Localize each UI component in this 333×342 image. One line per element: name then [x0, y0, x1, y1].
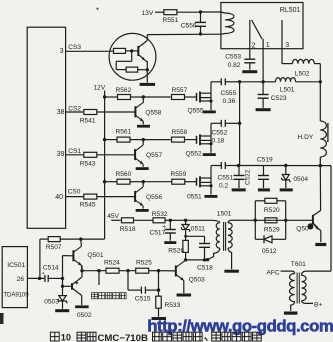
junction C556 bottom: [199, 32, 202, 35]
wire R533 node down: [158, 271, 160, 297]
svg-text:Q503: Q503: [189, 276, 205, 283]
R525 label: [136, 260, 152, 267]
node A3 junction: [142, 180, 145, 183]
wire R507 lead: [40, 238, 49, 240]
inductor L502: [282, 59, 320, 63]
wire Q556 emitter down: [142, 206, 144, 209]
wire D511 to R526: [185, 231, 187, 241]
relay pin 1 wire: [262, 39, 264, 49]
diode D504 (zener): [281, 166, 290, 189]
wire R533 to ground: [158, 308, 160, 317]
wire Q552 source to ground: [210, 144, 212, 153]
T601 secondary winding: [302, 271, 332, 303]
wire D503 to ground: [62, 301, 64, 309]
junction D511 node: [184, 219, 187, 222]
13V label: [142, 10, 154, 17]
junction C517 node: [169, 219, 172, 222]
diode D503 (zener): [58, 296, 68, 304]
Q501 label: [87, 252, 103, 259]
resistor R525: [136, 268, 149, 273]
wire Q555 drain to C555: [211, 81, 221, 83]
C555 label: [221, 90, 237, 105]
C517 label: [150, 230, 166, 237]
svg-text:C519: C519: [257, 156, 273, 163]
Q504 label: [296, 226, 309, 233]
relay RL501 box: [221, 3, 303, 49]
wire R526 to coll row: [185, 252, 187, 260]
junction T501 primary bottom: [206, 258, 209, 261]
junction D504 top: [284, 164, 287, 167]
wire Rb left jog: [116, 51, 132, 70]
pin 38 number: [57, 109, 65, 116]
right bus upper wire: [319, 82, 321, 121]
wire Q555 drain riser: [210, 82, 212, 93]
wire node A3 to R559: [143, 181, 171, 183]
wire right edge down to T601: [330, 166, 332, 272]
wire C515 lead left: [128, 289, 141, 291]
transistor Q558: [135, 102, 143, 121]
wire 12V to R562: [105, 96, 118, 98]
wire 45V tick: [111, 219, 121, 221]
C556 label: [181, 23, 197, 30]
svg-text:R560: R560: [116, 171, 132, 178]
wire row165 segment: [239, 165, 331, 167]
resistor R561: [117, 137, 130, 142]
ground T601 primary: [284, 312, 298, 315]
svg-text:3: 3: [285, 42, 289, 49]
C522 label: [245, 169, 252, 185]
ground C553: [242, 70, 257, 73]
R558 label: [172, 129, 188, 136]
resistor R543: [84, 152, 97, 157]
svg-text:Q501: Q501: [87, 252, 103, 259]
svg-text:R507: R507: [46, 244, 62, 251]
wire 13V to R551: [155, 11, 164, 13]
R541 label: [80, 118, 96, 125]
wire CS0 to Q556 base: [97, 196, 135, 198]
svg-text:C552: C552: [212, 130, 228, 137]
wire base node to bar: [132, 50, 139, 52]
wire Q552 drain riser: [210, 123, 212, 136]
node A2 junction: [142, 138, 145, 141]
transistor Q552 (MOSFET): [197, 134, 213, 145]
svg-text:0551: 0551: [187, 193, 202, 200]
wire L501 to right bus: [296, 81, 321, 83]
junction network right: [284, 219, 287, 222]
wire Q501 base: [63, 255, 74, 257]
node CS2 label: [68, 106, 81, 113]
svg-text:CS1: CS1: [68, 148, 81, 155]
R524 label: [104, 260, 120, 267]
svg-text:R520: R520: [264, 207, 280, 214]
wire pin26 to C514: [27, 277, 44, 279]
wire L502 to right bus: [319, 64, 321, 82]
svg-text:Q50: Q50: [296, 226, 309, 233]
capacitor C518: [199, 236, 210, 260]
capacitor C519: [258, 166, 269, 189]
svg-text:45V: 45V: [107, 213, 119, 220]
wire D512 bottom row: [255, 238, 285, 240]
wire S-bus top segment: [240, 81, 264, 83]
pin 3 number: [60, 48, 64, 55]
junction C523 node: [261, 80, 264, 83]
svg-text:1: 1: [266, 42, 270, 49]
svg-text:C514: C514: [43, 264, 59, 271]
wire R560 to node A3: [130, 181, 143, 183]
svg-text:R551: R551: [163, 17, 179, 24]
junction base rail: [61, 277, 64, 280]
D504 label: [293, 176, 308, 183]
svg-text:Q555: Q555: [188, 108, 204, 115]
svg-text:Q558: Q558: [145, 110, 161, 117]
wire Q550 emitter down: [145, 60, 147, 70]
wire AFC lead: [281, 270, 283, 272]
transistor Q504: [308, 210, 321, 229]
wire 12V to R561: [105, 139, 117, 141]
IC501 label: [7, 262, 25, 269]
R559 label: [171, 171, 187, 178]
svg-text:IC501: IC501: [7, 262, 25, 269]
capacitor C515: [141, 287, 145, 294]
wire Q551 drain to C551: [211, 165, 221, 167]
junction driver output node: [80, 269, 83, 272]
capacitor C514: [42, 264, 59, 282]
resistor R551: [164, 10, 177, 15]
Q551 label: [187, 193, 202, 200]
ground C522: [232, 188, 246, 191]
svg-text:TDA9109: TDA9109: [3, 291, 29, 298]
resistor R541: [84, 110, 97, 115]
wire C551 to S-bus: [225, 165, 238, 167]
wire HV stub: [98, 271, 100, 285]
svg-text:RL501: RL501: [280, 7, 301, 14]
wire network to Q504 base: [286, 219, 313, 221]
resistor R558: [172, 137, 185, 142]
junction network left: [254, 219, 257, 222]
capacitor C553: [244, 49, 255, 70]
pin 1 label: [266, 42, 270, 49]
junction S-bus top: [238, 80, 241, 83]
ground Q503: [177, 294, 192, 297]
network left rail: [254, 201, 256, 240]
svg-text:R561: R561: [116, 128, 132, 135]
ground D503: [55, 309, 69, 312]
svg-text:T601: T601: [291, 261, 306, 268]
relay pin 3 wire: [281, 20, 283, 49]
wire R507 to Q501 collector node: [60, 238, 81, 240]
S-bus vertical wire: [239, 82, 241, 166]
svg-text:0512: 0512: [262, 248, 277, 255]
svg-text:0.18: 0.18: [212, 138, 225, 145]
H.DY yoke coil: [320, 121, 326, 157]
resistor R557: [172, 95, 185, 100]
junction 12V-R562: [103, 95, 106, 98]
wire collector row: [186, 259, 208, 261]
HV circuit note (Chinese: to high-voltage circuit): [92, 293, 127, 299]
network right rail: [285, 201, 287, 240]
wire R520 top row: [255, 200, 285, 202]
junction bus row165: [319, 164, 322, 167]
junction C518 bottom: [203, 258, 206, 261]
wire secondary to network: [255, 219, 285, 221]
svg-text:C551: C551: [218, 174, 234, 181]
ground Q558: [137, 125, 150, 128]
svg-text:38: 38: [57, 109, 65, 116]
ground C523: [256, 108, 271, 111]
RL501 label: [280, 7, 301, 14]
svg-text:Q556: Q556: [146, 194, 162, 201]
AFC label: [267, 270, 280, 277]
wire CS1 pin39 segment: [66, 154, 84, 156]
svg-text:C515: C515: [135, 296, 151, 303]
wire C552 to S-bus: [225, 122, 239, 124]
transistor Q550 bar/collector/emitter: [138, 41, 147, 61]
capacitor C552: [221, 120, 225, 127]
wire node A1 to R557: [143, 96, 170, 98]
wire Q503 collector: [184, 260, 186, 262]
12V label: [94, 85, 106, 92]
D503 label: [44, 298, 59, 305]
svg-text:0504: 0504: [293, 176, 308, 183]
relay coil: [221, 12, 234, 34]
junction C515 right: [157, 288, 160, 291]
R543 label: [80, 160, 96, 167]
IC IC501 box: [2, 247, 27, 308]
wire 12V bus to R507 row: [81, 238, 105, 240]
pin 3 label: [285, 42, 289, 49]
svg-text:R526: R526: [168, 248, 184, 255]
ground Q557: [136, 167, 149, 170]
wire C555 to S-bus: [225, 81, 239, 83]
svg-text:B+: B+: [314, 301, 323, 308]
inductor L501: [276, 78, 296, 82]
ground Q551: [204, 195, 217, 198]
C551 label: [218, 174, 234, 189]
wire R551 to C556 top: [177, 11, 201, 13]
svg-text:L502: L502: [295, 70, 310, 77]
svg-text:C518: C518: [197, 264, 213, 271]
wire C518 branch horiz: [186, 235, 205, 237]
T501 core: [224, 222, 226, 251]
wire Q504 collector: [319, 166, 321, 211]
svg-text:R532: R532: [152, 211, 168, 218]
wire base rail to D503: [62, 286, 64, 295]
wire R561 to node A2: [130, 139, 143, 141]
wire Q501 emitter to node: [80, 265, 83, 270]
wire R507 left riser: [39, 239, 41, 278]
svg-text:26: 26: [16, 276, 24, 283]
caption figure 10 text: [50, 332, 261, 342]
svg-text:10: 10: [61, 333, 71, 342]
wire pin3 down: [281, 49, 283, 64]
node CS1 label: [68, 148, 81, 155]
resistor R526: [183, 240, 189, 252]
svg-text:http://www.go-gddq.com: http://www.go-gddq.com: [147, 317, 333, 336]
wire Q557 emitter down: [142, 164, 144, 167]
wire CS0 pin40 segment: [66, 196, 84, 198]
svg-text:R545: R545: [80, 202, 96, 209]
junction 12V-R561: [103, 138, 106, 141]
svg-text:C522: C522: [245, 169, 252, 185]
junction 12V-R560: [103, 180, 106, 183]
T601 primary winding (AFC): [283, 271, 295, 311]
junction coll row left: [184, 258, 187, 261]
base rail wire: [62, 256, 64, 287]
T601 label: [291, 261, 306, 268]
wire Q502 base: [63, 285, 73, 287]
wire Q550 emitter to ground: [146, 70, 148, 83]
Q555 label: [188, 108, 204, 115]
ground D504: [280, 188, 293, 191]
wire output row to R524: [82, 270, 106, 272]
svg-text:R559: R559: [171, 171, 187, 178]
R545 label: [80, 202, 96, 209]
svg-text:0.82: 0.82: [228, 62, 241, 69]
wire Q555 source to ground: [210, 101, 212, 110]
wire C517 node to D511 node: [170, 219, 185, 221]
wire Rb right: [138, 69, 148, 71]
resistor R529: [265, 218, 277, 223]
ground Q504: [315, 243, 326, 246]
wire R525 to Q503 node: [149, 270, 159, 272]
resistor R518: [122, 218, 134, 223]
wire Q501 collector riser: [80, 239, 83, 246]
transistor Q503: [176, 261, 184, 280]
Q556 label: [146, 194, 162, 201]
svg-text:0511: 0511: [191, 226, 206, 233]
wire 12V to R560: [105, 181, 117, 183]
R507 label: [46, 244, 62, 251]
R560 label: [116, 171, 132, 178]
D512 label: [262, 248, 277, 255]
ground Q555: [203, 111, 216, 114]
svg-text:H.DY: H.DY: [298, 134, 314, 141]
svg-text:C556: C556: [181, 23, 197, 30]
capacitor C556: [195, 12, 206, 34]
R533 label: [165, 302, 181, 309]
svg-text:39: 39: [57, 151, 65, 158]
resistor R(b) inside Q550: [126, 67, 137, 72]
svg-text:13V: 13V: [142, 10, 154, 17]
ground R533: [152, 317, 167, 320]
ground Q552: [203, 153, 216, 156]
svg-text:R543: R543: [80, 160, 96, 167]
node CS0 label: [68, 189, 81, 196]
wire Q550 collector exit: [146, 35, 148, 41]
L502 label: [295, 70, 310, 77]
svg-text:40: 40: [55, 194, 63, 201]
wire Q503 base: [159, 270, 176, 272]
Q557 label: [146, 152, 162, 159]
svg-text:CS3: CS3: [68, 44, 81, 51]
wire Q558 emitter down: [142, 121, 144, 124]
wire CS3 into circle: [110, 50, 114, 52]
svg-text:R557: R557: [172, 87, 188, 94]
wire Q551 source to ground: [210, 186, 212, 195]
wire Q556 collector: [142, 182, 144, 187]
resistor R545: [84, 194, 97, 199]
wire CS1 to Q557 base: [97, 154, 135, 156]
wire output node vertical: [81, 265, 83, 277]
pin 40 number: [55, 194, 63, 201]
transistor Q550 circle outline: [109, 33, 156, 80]
TDA9109 label: [3, 291, 29, 298]
C519 label: [257, 156, 273, 163]
resistor R(a) inside Q550: [114, 48, 126, 53]
svg-text:L501: L501: [280, 87, 295, 94]
svg-text:1501: 1501: [217, 211, 232, 218]
junction right bus top: [319, 80, 322, 83]
T501 primary winding: [208, 220, 220, 259]
svg-text:R558: R558: [172, 129, 188, 136]
junction C518 branch: [184, 235, 187, 238]
H.DY core line: [327, 123, 329, 142]
resistor R562: [118, 95, 131, 100]
R518 label: [120, 226, 136, 233]
wire D511 node to T501: [186, 219, 212, 221]
svg-text:3: 3: [60, 48, 64, 55]
node Q550 emitter junction: [146, 68, 149, 71]
ground T501 secondary: [224, 270, 239, 273]
junction R533 node: [157, 269, 160, 272]
wire Q503 emitter: [183, 280, 185, 293]
wire to relay coil top: [201, 11, 221, 13]
capacitor C523: [258, 82, 269, 108]
svg-text:R562: R562: [116, 87, 132, 94]
R562 label: [116, 87, 132, 94]
wire R562 to node A1: [131, 96, 144, 98]
wire C514 to base rail: [48, 277, 62, 279]
junction C515 left: [126, 269, 129, 272]
svg-text:2: 2: [252, 42, 256, 49]
watermark URL: [147, 317, 333, 336]
svg-text:C517: C517: [150, 230, 166, 237]
D511 label: [191, 226, 206, 233]
wire R532 to C517 node: [165, 219, 170, 221]
R561 label: [116, 128, 132, 135]
junction HV stub: [97, 269, 100, 272]
svg-text:0503: 0503: [44, 298, 59, 305]
wire CS2 pin38 segment: [66, 111, 84, 113]
C523 label: [271, 95, 287, 102]
wire Q557 collector: [142, 140, 144, 146]
node A1 junction: [142, 95, 145, 98]
45V label: [107, 213, 119, 220]
svg-text:0.36: 0.36: [223, 98, 236, 105]
svg-text:AFC: AFC: [267, 270, 280, 277]
wire bus H.DY to row165: [319, 157, 321, 166]
T501 label: [217, 211, 232, 218]
wire Q552 drain to C552: [211, 122, 221, 124]
wire R518 to R532: [134, 219, 154, 221]
wire Q550 collector to relay coil bottom: [147, 33, 221, 35]
node CS3 label: [68, 44, 81, 51]
resistor R507: [48, 237, 60, 242]
svg-text:0.2: 0.2: [219, 182, 228, 189]
wire C515 left tap: [127, 271, 129, 290]
svg-text:R533: R533: [165, 302, 181, 309]
transistor Q501: [73, 246, 81, 265]
capacitor C551: [221, 162, 225, 169]
svg-text:R541: R541: [80, 118, 96, 125]
svg-text:0502: 0502: [77, 312, 92, 319]
wire Q558 collector: [142, 97, 144, 103]
wire node to L501: [263, 81, 275, 83]
wire CS2 to Q558 base: [97, 111, 135, 113]
Q558 label: [145, 110, 161, 117]
svg-text:C523: C523: [271, 95, 287, 102]
R551 label: [163, 17, 179, 24]
